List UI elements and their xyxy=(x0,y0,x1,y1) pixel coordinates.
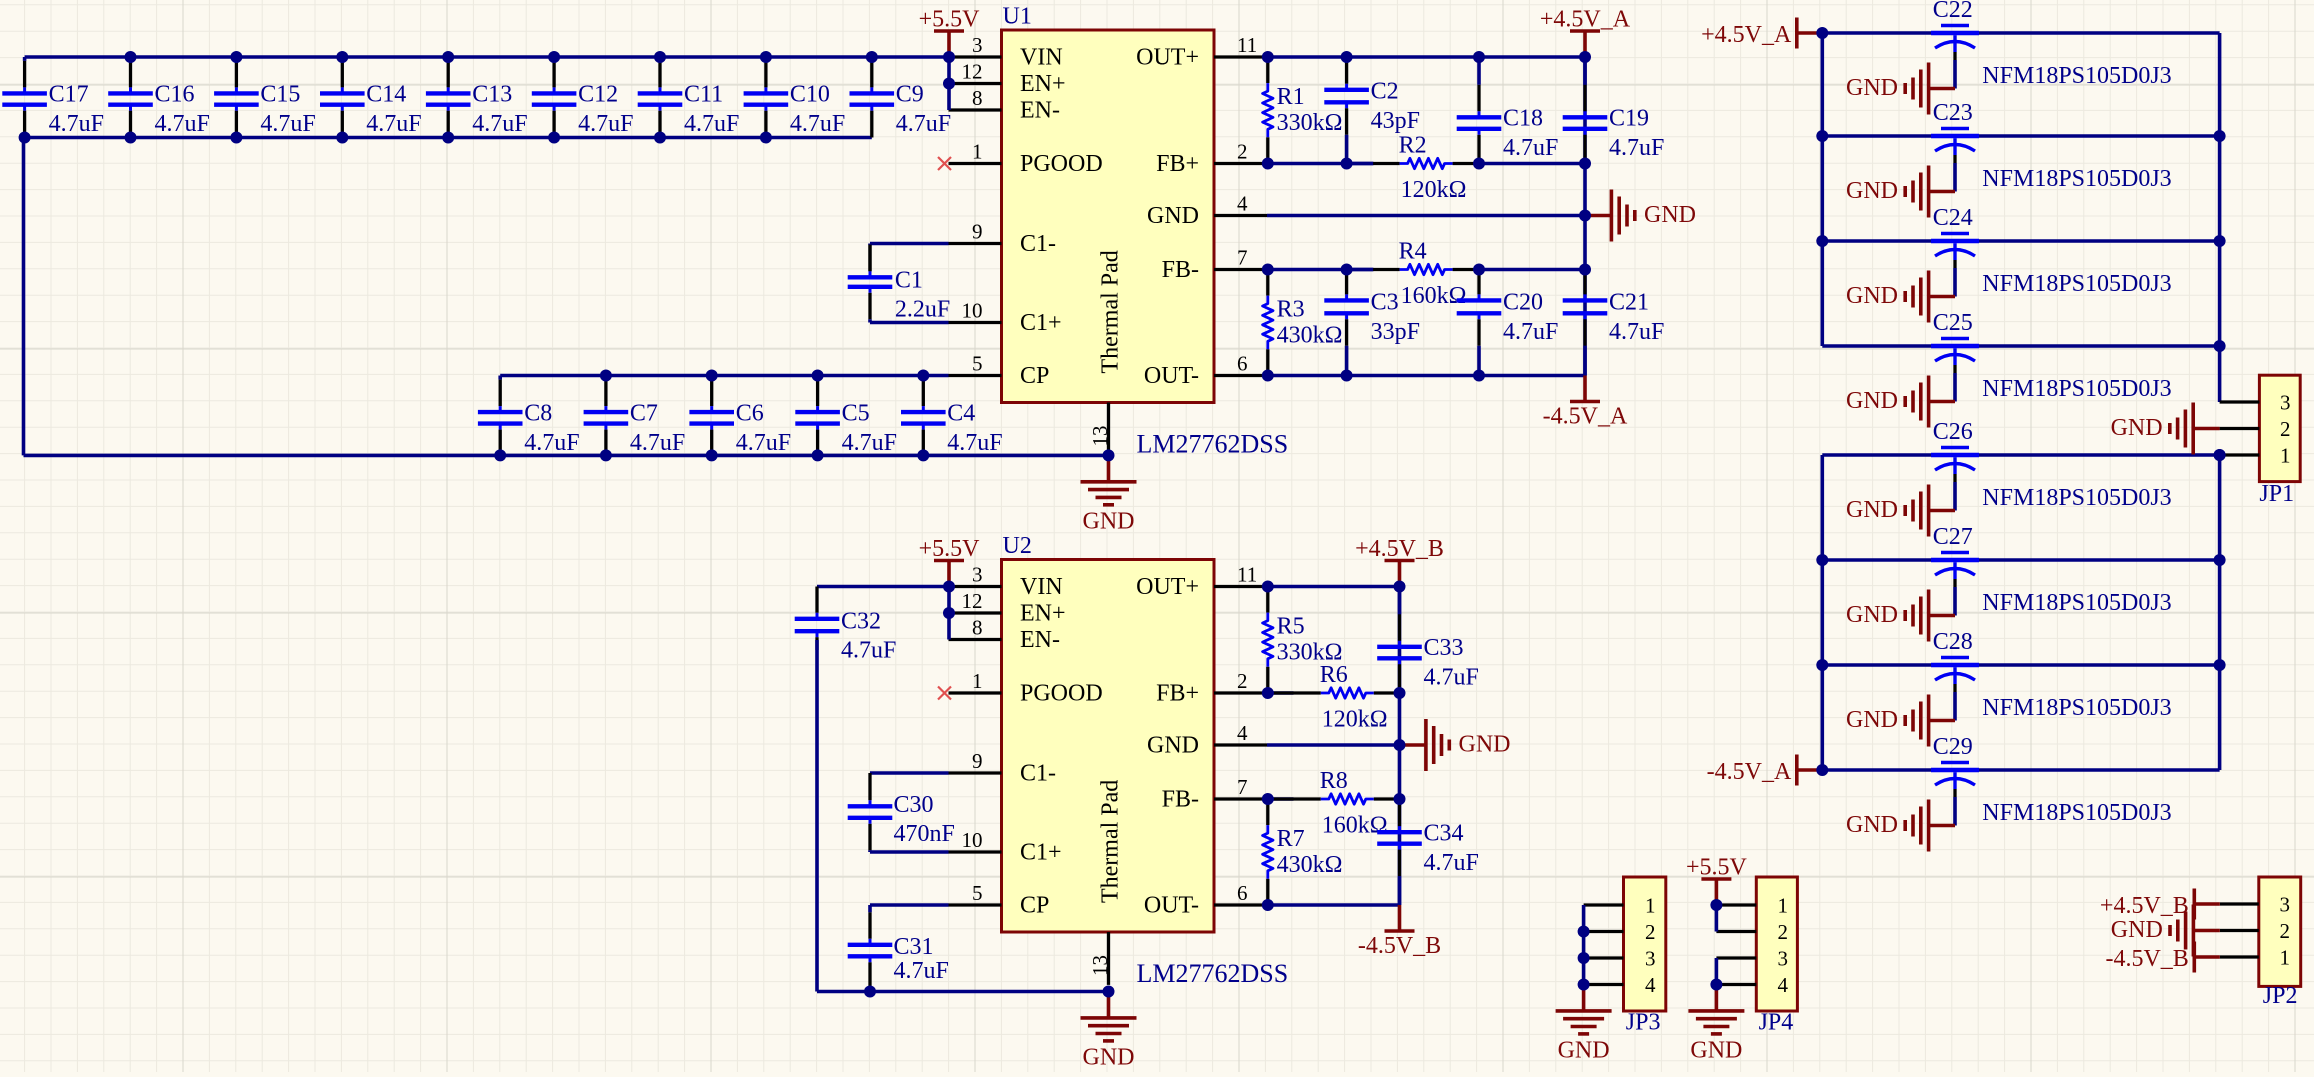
ground GND at C26 xyxy=(1846,485,1955,537)
junction xyxy=(1262,793,1274,805)
capacitor C24 NFM18PS105D0J3 xyxy=(1931,205,2172,297)
junction xyxy=(1262,581,1274,593)
svg-text:13: 13 xyxy=(1088,955,1112,976)
svg-text:C17: C17 xyxy=(49,82,89,108)
resistor R5 330k xyxy=(1263,587,1343,694)
junction C17 bottom xyxy=(19,132,31,144)
svg-text:+4.5V_A: +4.5V_A xyxy=(1540,7,1631,33)
ground GND at C29 xyxy=(1846,800,1955,852)
junction C4 top xyxy=(917,370,929,382)
svg-text:-4.5V_A: -4.5V_A xyxy=(1543,404,1628,430)
junction C7 bottom xyxy=(600,449,612,461)
junction xyxy=(1262,51,1274,63)
pin 4 of JP3 xyxy=(1584,973,1656,997)
capacitor C30 xyxy=(848,773,893,852)
svg-text:4.7uF: 4.7uF xyxy=(1609,135,1664,161)
svg-text:7: 7 xyxy=(1237,246,1248,270)
pin 5 CP of U1 xyxy=(949,352,1050,390)
svg-text:8: 8 xyxy=(972,86,983,110)
svg-text:C27: C27 xyxy=(1933,524,1973,550)
power port -4.5V_A right column xyxy=(1707,755,1823,786)
junction xyxy=(1579,210,1591,222)
junction xyxy=(1394,739,1406,751)
pin 3 VIN of U2 xyxy=(949,563,1063,601)
junction xyxy=(1262,158,1274,170)
svg-text:C1-: C1- xyxy=(1020,761,1056,787)
wire FB- row U1 xyxy=(1267,268,1374,272)
pin 4 GND of U2 xyxy=(1147,721,1267,759)
svg-text:C13: C13 xyxy=(472,82,512,108)
svg-text:+4.5V_A: +4.5V_A xyxy=(1701,22,1792,48)
IC U1 LM27762DSS body xyxy=(1002,30,1215,403)
pin 2 of JP1 xyxy=(2220,417,2291,441)
svg-text:C29: C29 xyxy=(1933,734,1973,760)
svg-text:GND: GND xyxy=(1083,1045,1135,1071)
svg-text:C24: C24 xyxy=(1933,205,1973,231)
junction xyxy=(1816,130,1828,142)
junction xyxy=(1262,899,1274,911)
svg-text:2: 2 xyxy=(1645,920,1656,944)
pin 8 EN- of U2 xyxy=(949,616,1060,654)
pin 10 C1+ of U2 xyxy=(949,828,1062,866)
connector JP2 body xyxy=(2259,877,2301,986)
svg-text:33pF: 33pF xyxy=(1371,319,1420,345)
capacitor C22 NFM18PS105D0J3 xyxy=(1931,0,2172,89)
svg-text:C23: C23 xyxy=(1933,100,1973,126)
wire OUT- row U2 xyxy=(1267,903,1400,907)
svg-text:CP: CP xyxy=(1020,363,1049,389)
svg-text:C16: C16 xyxy=(155,82,195,108)
svg-text:R2: R2 xyxy=(1399,133,1427,159)
resistor R2 120k xyxy=(1347,133,1479,204)
pin 4 GND of U1 xyxy=(1147,192,1267,230)
svg-text:1: 1 xyxy=(1645,894,1656,918)
junction xyxy=(2214,449,2226,461)
svg-text:EN+: EN+ xyxy=(1020,71,1066,97)
ground GND at C23 xyxy=(1846,166,1955,218)
svg-text:R6: R6 xyxy=(1320,662,1348,688)
pin 1 of JP2 xyxy=(2220,946,2290,970)
wire OUT+ row U2 xyxy=(1267,585,1400,589)
wire C1- row U2 xyxy=(870,771,949,775)
capacitor C2 xyxy=(1324,57,1420,164)
svg-text:4.7uF: 4.7uF xyxy=(1424,665,1479,691)
junction C11 top xyxy=(654,51,666,63)
wire VIN row U2 to C32 xyxy=(817,585,949,589)
svg-text:OUT+: OUT+ xyxy=(1136,574,1199,600)
svg-text:GND: GND xyxy=(1846,602,1898,628)
svg-text:NFM18PS105D0J3: NFM18PS105D0J3 xyxy=(1982,271,2171,297)
wire bottom long bus (CP net) xyxy=(24,454,1109,458)
wire C1+ row U2 xyxy=(870,850,949,854)
svg-text:+5.5V: +5.5V xyxy=(919,536,981,562)
svg-text:NFM18PS105D0J3: NFM18PS105D0J3 xyxy=(1982,590,2171,616)
junction C6 bottom xyxy=(706,449,718,461)
wire FB- row U1 right segment xyxy=(1479,268,1585,272)
wire VIN/EN+/EN- tie at U1 xyxy=(947,57,951,110)
svg-text:C19: C19 xyxy=(1609,106,1649,132)
capacitor C7 xyxy=(584,376,686,456)
svg-text:-4.5V_B: -4.5V_B xyxy=(2105,946,2188,972)
junction C11 bottom xyxy=(654,132,666,144)
svg-text:GND: GND xyxy=(2111,415,2163,441)
wire JP4 pins 1-2 tie xyxy=(1715,905,1719,932)
svg-text:JP4: JP4 xyxy=(1759,1010,1794,1036)
wire output vertical +4.5V_A/-4.5V_A column xyxy=(1583,57,1587,376)
svg-text:OUT+: OUT+ xyxy=(1136,45,1199,71)
svg-text:3: 3 xyxy=(1778,947,1789,971)
junction C14 bottom xyxy=(336,132,348,144)
junction C13 bottom xyxy=(442,132,454,144)
ground GND at C25 xyxy=(1846,376,1955,428)
pin 11 OUT+ of U1 xyxy=(1136,33,1267,71)
svg-text:11: 11 xyxy=(1237,563,1257,587)
svg-text:C34: C34 xyxy=(1424,820,1464,846)
svg-text:GND: GND xyxy=(1846,812,1898,838)
pin 12 EN+ of U2 xyxy=(949,589,1066,627)
svg-text:120kΩ: 120kΩ xyxy=(1322,707,1388,733)
wire left bus -4.5V_A group xyxy=(1821,455,1825,770)
pin 2 FB+ of U2 xyxy=(1156,669,1267,707)
pin 1 of JP1 xyxy=(2220,444,2291,468)
svg-text:13: 13 xyxy=(1088,426,1112,447)
junction EN+ U1 xyxy=(943,78,955,90)
svg-text:C4: C4 xyxy=(947,400,975,426)
junction xyxy=(1473,158,1485,170)
svg-text:4.7uF: 4.7uF xyxy=(790,111,845,137)
svg-text:C26: C26 xyxy=(1933,419,1973,445)
wire NFM row y=33 xyxy=(1822,31,2219,35)
wire NFM row y=346 xyxy=(1822,344,2219,348)
svg-text:4.7uF: 4.7uF xyxy=(947,430,1002,456)
svg-text:NFM18PS105D0J3: NFM18PS105D0J3 xyxy=(1982,695,2171,721)
wire C32 bottom vertical xyxy=(815,640,819,992)
pin 3 of JP4 xyxy=(1716,947,1788,971)
svg-text:+5.5V: +5.5V xyxy=(1686,855,1748,881)
svg-text:3: 3 xyxy=(972,33,983,57)
junction C6 top xyxy=(706,370,718,382)
junction xyxy=(1473,51,1485,63)
svg-text:R1: R1 xyxy=(1277,84,1305,110)
pin 3 of JP1 xyxy=(2220,391,2291,415)
svg-text:Thermal Pad: Thermal Pad xyxy=(1098,250,1124,373)
svg-text:C1+: C1+ xyxy=(1020,840,1062,866)
pin 6 OUT- of U2 xyxy=(1144,881,1267,919)
svg-text:2: 2 xyxy=(2280,417,2291,441)
svg-text:4: 4 xyxy=(1645,973,1656,997)
junction C16 bottom xyxy=(125,132,137,144)
junction C12 bottom xyxy=(548,132,560,144)
svg-text:C28: C28 xyxy=(1933,629,1973,655)
svg-text:330kΩ: 330kΩ xyxy=(1277,110,1343,136)
junction xyxy=(1816,27,1828,39)
svg-text:4.7uF: 4.7uF xyxy=(896,111,951,137)
pin 2 of JP3 xyxy=(1584,920,1656,944)
wire U2 bottom bus xyxy=(817,990,1109,994)
svg-text:C12: C12 xyxy=(578,82,618,108)
svg-text:C14: C14 xyxy=(366,82,406,108)
svg-text:120kΩ: 120kΩ xyxy=(1401,177,1467,203)
pin 12 EN+ of U1 xyxy=(949,60,1066,98)
connector JP4 body xyxy=(1756,877,1797,1011)
junction xyxy=(1473,370,1485,382)
svg-text:NFM18PS105D0J3: NFM18PS105D0J3 xyxy=(1982,63,2171,89)
svg-text:4.7uF: 4.7uF xyxy=(736,430,791,456)
ground GND at JP1 pin 2 xyxy=(2111,403,2220,455)
capacitor C20 xyxy=(1457,270,1559,376)
ground GND below U1 pin 13 xyxy=(1081,455,1137,534)
pin 2 FB+ of U1 xyxy=(1156,140,1267,178)
pin 1 of JP3 xyxy=(1584,894,1656,918)
IC U2 LM27762DSS body xyxy=(1002,560,1215,933)
junction C31 bottom xyxy=(864,986,876,998)
junction xyxy=(2214,130,2226,142)
svg-text:C21: C21 xyxy=(1609,289,1649,315)
junction xyxy=(1816,764,1828,776)
wire VIN top bus xyxy=(25,55,949,59)
pin 13 thermal pad of U1 xyxy=(1088,403,1112,456)
svg-text:GND: GND xyxy=(2111,917,2163,943)
junction EN+ U2 xyxy=(943,607,955,619)
svg-text:C8: C8 xyxy=(524,400,552,426)
junction JP3 xyxy=(1578,926,1590,938)
svg-text:FB+: FB+ xyxy=(1156,681,1199,707)
wire FB+ row U2 xyxy=(1267,691,1294,695)
svg-text:PGOOD: PGOOD xyxy=(1020,681,1103,707)
capacitor C4 xyxy=(901,376,1003,456)
svg-text:C32: C32 xyxy=(841,609,881,635)
svg-text:NFM18PS105D0J3: NFM18PS105D0J3 xyxy=(1982,166,2171,192)
svg-text:NFM18PS105D0J3: NFM18PS105D0J3 xyxy=(1982,485,2171,511)
power port +5.5V above JP4 xyxy=(1686,855,1748,906)
pin 10 C1+ of U1 xyxy=(949,299,1062,337)
svg-text:10: 10 xyxy=(962,299,983,323)
svg-text:5: 5 xyxy=(972,881,983,905)
svg-text:4: 4 xyxy=(1237,721,1248,745)
ground GND at C27 xyxy=(1846,590,1955,642)
svg-text:OUT-: OUT- xyxy=(1144,893,1199,919)
junction xyxy=(1341,158,1353,170)
svg-text:4.7uF: 4.7uF xyxy=(630,430,685,456)
svg-text:4.7uF: 4.7uF xyxy=(155,111,210,137)
pin 4 of JP4 xyxy=(1716,973,1788,997)
no-connect X on PGOOD of U2 xyxy=(938,687,951,700)
capacitor C8 xyxy=(478,376,580,456)
svg-text:C7: C7 xyxy=(630,400,658,426)
ground GND below JP3 xyxy=(1556,985,1612,1064)
svg-text:6: 6 xyxy=(1237,881,1248,905)
wire FB- row U2 xyxy=(1267,797,1294,801)
wire GND row U2 xyxy=(1267,743,1400,747)
svg-text:6: 6 xyxy=(1237,352,1248,376)
svg-text:GND: GND xyxy=(1459,732,1511,758)
svg-text:C33: C33 xyxy=(1424,635,1464,661)
junction xyxy=(2214,659,2226,671)
ground GND at C28 xyxy=(1846,695,1955,747)
svg-text:EN-: EN- xyxy=(1020,98,1060,124)
power port +4.5V_B at JP2 pin 3 xyxy=(2100,889,2220,920)
junction xyxy=(2214,554,2226,566)
wire NFM row y=455 xyxy=(1822,453,2219,457)
capacitor C34 xyxy=(1377,799,1479,905)
svg-text:C9: C9 xyxy=(896,82,924,108)
wire NFM row y=136 xyxy=(1822,134,2219,138)
capacitor C25 NFM18PS105D0J3 xyxy=(1931,310,2172,402)
junction xyxy=(1816,659,1828,671)
junction C7 top xyxy=(600,370,612,382)
svg-text:R7: R7 xyxy=(1277,826,1305,852)
ground GND at U2 pin 4 net xyxy=(1400,719,1511,771)
svg-text:GND: GND xyxy=(1558,1038,1610,1064)
svg-text:1: 1 xyxy=(2280,444,2291,468)
svg-text:8: 8 xyxy=(972,616,983,640)
junction xyxy=(2214,340,2226,352)
capacitor C18 xyxy=(1457,57,1559,164)
svg-text:4: 4 xyxy=(1778,973,1789,997)
junction VIN U1 xyxy=(943,51,955,63)
capacitor C28 NFM18PS105D0J3 xyxy=(1931,629,2172,721)
capacitor C1 xyxy=(848,244,893,323)
junction xyxy=(1579,264,1591,276)
power port -4.5V_B at JP2 pin 1 xyxy=(2105,942,2219,973)
power port +4.5V_B above C33 xyxy=(1355,536,1444,587)
connector JP1 body xyxy=(2259,375,2300,481)
pin 6 OUT- of U1 xyxy=(1144,352,1267,390)
junction JP4 pin4 xyxy=(1710,979,1722,991)
svg-text:1: 1 xyxy=(1778,894,1789,918)
junction xyxy=(1394,793,1406,805)
svg-text:10: 10 xyxy=(962,828,983,852)
svg-text:FB+: FB+ xyxy=(1156,151,1199,177)
junction xyxy=(1816,235,1828,247)
svg-text:43pF: 43pF xyxy=(1371,108,1420,134)
junction JP1 pin1 xyxy=(2214,449,2226,461)
svg-text:+4.5V_B: +4.5V_B xyxy=(2100,893,2189,919)
junction xyxy=(1341,370,1353,382)
svg-text:GND: GND xyxy=(1846,388,1898,414)
svg-text:4.7uF: 4.7uF xyxy=(260,111,315,137)
svg-text:GND: GND xyxy=(1083,508,1135,534)
svg-text:VIN: VIN xyxy=(1020,45,1063,71)
resistor R7 430k xyxy=(1263,799,1343,905)
svg-text:3: 3 xyxy=(1645,947,1656,971)
svg-text:4.7uF: 4.7uF xyxy=(684,111,739,137)
svg-text:CP: CP xyxy=(1020,893,1049,919)
wire CP top bus xyxy=(500,374,948,378)
capacitor C11 xyxy=(638,57,740,138)
svg-text:C31: C31 xyxy=(894,934,934,960)
svg-text:U1: U1 xyxy=(1003,4,1032,30)
svg-text:NFM18PS105D0J3: NFM18PS105D0J3 xyxy=(1982,376,2171,402)
svg-text:+4.5V_B: +4.5V_B xyxy=(1355,536,1444,562)
capacitor C3 xyxy=(1324,270,1420,376)
svg-text:4.7uF: 4.7uF xyxy=(842,430,897,456)
junction xyxy=(1262,687,1274,699)
svg-text:1: 1 xyxy=(2280,946,2291,970)
svg-text:GND: GND xyxy=(1846,497,1898,523)
pin 9 C1- of U2 xyxy=(949,749,1057,787)
svg-text:2.2uF: 2.2uF xyxy=(895,297,950,323)
pin 1 of JP4 xyxy=(1716,894,1788,918)
svg-text:FB-: FB- xyxy=(1162,257,1199,283)
wire FB+ row U1 right segment xyxy=(1479,162,1585,166)
capacitor C6 xyxy=(689,376,791,456)
svg-text:GND: GND xyxy=(1846,75,1898,101)
svg-text:C18: C18 xyxy=(1503,106,1543,132)
svg-text:R8: R8 xyxy=(1320,768,1348,794)
pin 7 FB- of U1 xyxy=(1162,246,1267,284)
connector JP3 body xyxy=(1624,877,1666,1011)
svg-text:470nF: 470nF xyxy=(894,821,955,847)
svg-text:9: 9 xyxy=(972,220,983,244)
capacitor C19 xyxy=(1563,57,1665,164)
svg-text:C11: C11 xyxy=(684,82,723,108)
wire FB+ row U1 xyxy=(1267,162,1374,166)
capacitor C31 xyxy=(848,905,893,992)
svg-text:160kΩ: 160kΩ xyxy=(1322,813,1388,839)
svg-text:430kΩ: 430kΩ xyxy=(1277,323,1343,349)
wire NFM row y=665 xyxy=(1822,663,2219,667)
svg-text:U2: U2 xyxy=(1003,533,1032,559)
ground GND at C22 xyxy=(1846,63,1955,115)
junction xyxy=(1262,370,1274,382)
svg-text:GND: GND xyxy=(1846,178,1898,204)
junction C10 bottom xyxy=(760,132,772,144)
wire VIN/EN+/EN- tie at U2 xyxy=(947,587,951,640)
svg-text:JP2: JP2 xyxy=(2263,983,2298,1009)
junction xyxy=(1262,264,1274,276)
power port -4.5V_A below C21 xyxy=(1543,376,1628,430)
svg-text:GND: GND xyxy=(1147,203,1199,229)
svg-text:PGOOD: PGOOD xyxy=(1020,151,1103,177)
no-connect X on PGOOD of U1 xyxy=(938,157,951,170)
capacitor C13 xyxy=(426,57,528,138)
ground GND at U1 pin 4 net xyxy=(1585,190,1696,242)
svg-text:4.7uF: 4.7uF xyxy=(1609,319,1664,345)
svg-text:R3: R3 xyxy=(1277,297,1305,323)
pin 13 thermal pad of U2 xyxy=(1088,932,1112,985)
capacitor C16 xyxy=(108,57,210,138)
junction C8 bottom xyxy=(494,449,506,461)
svg-text:11: 11 xyxy=(1237,33,1257,57)
svg-text:4.7uF: 4.7uF xyxy=(841,638,896,664)
capacitor C29 NFM18PS105D0J3 xyxy=(1931,734,2172,826)
svg-text:C1-: C1- xyxy=(1020,231,1056,257)
ground GND below JP4 xyxy=(1688,985,1744,1064)
junction xyxy=(1473,264,1485,276)
wire output vertical +4.5V_B/-4.5V_B column xyxy=(1398,587,1402,906)
wire NFM row y=560 xyxy=(1822,558,2219,562)
svg-text:C25: C25 xyxy=(1933,310,1973,336)
svg-text:4.7uF: 4.7uF xyxy=(366,111,421,137)
junction xyxy=(1394,687,1406,699)
capacitor C26 NFM18PS105D0J3 xyxy=(1931,419,2172,511)
svg-text:4.7uF: 4.7uF xyxy=(894,958,949,984)
junction C4 bottom xyxy=(917,449,929,461)
wire JP3 ground tie xyxy=(1582,905,1586,985)
junction pin13 U2 / GND xyxy=(1103,986,1115,998)
svg-text:LM27762DSS: LM27762DSS xyxy=(1137,430,1289,459)
wire left bus +4.5V_A group xyxy=(1821,33,1825,346)
pin 3 VIN of U1 xyxy=(949,33,1063,71)
pin 7 FB- of U2 xyxy=(1162,775,1267,813)
svg-text:-4.5V_B: -4.5V_B xyxy=(1358,933,1441,959)
ground GND at JP2 pin 2 xyxy=(2111,905,2220,957)
junction xyxy=(1579,158,1591,170)
svg-text:5: 5 xyxy=(972,352,983,376)
svg-text:C1: C1 xyxy=(895,268,923,294)
svg-text:VIN: VIN xyxy=(1020,574,1063,600)
